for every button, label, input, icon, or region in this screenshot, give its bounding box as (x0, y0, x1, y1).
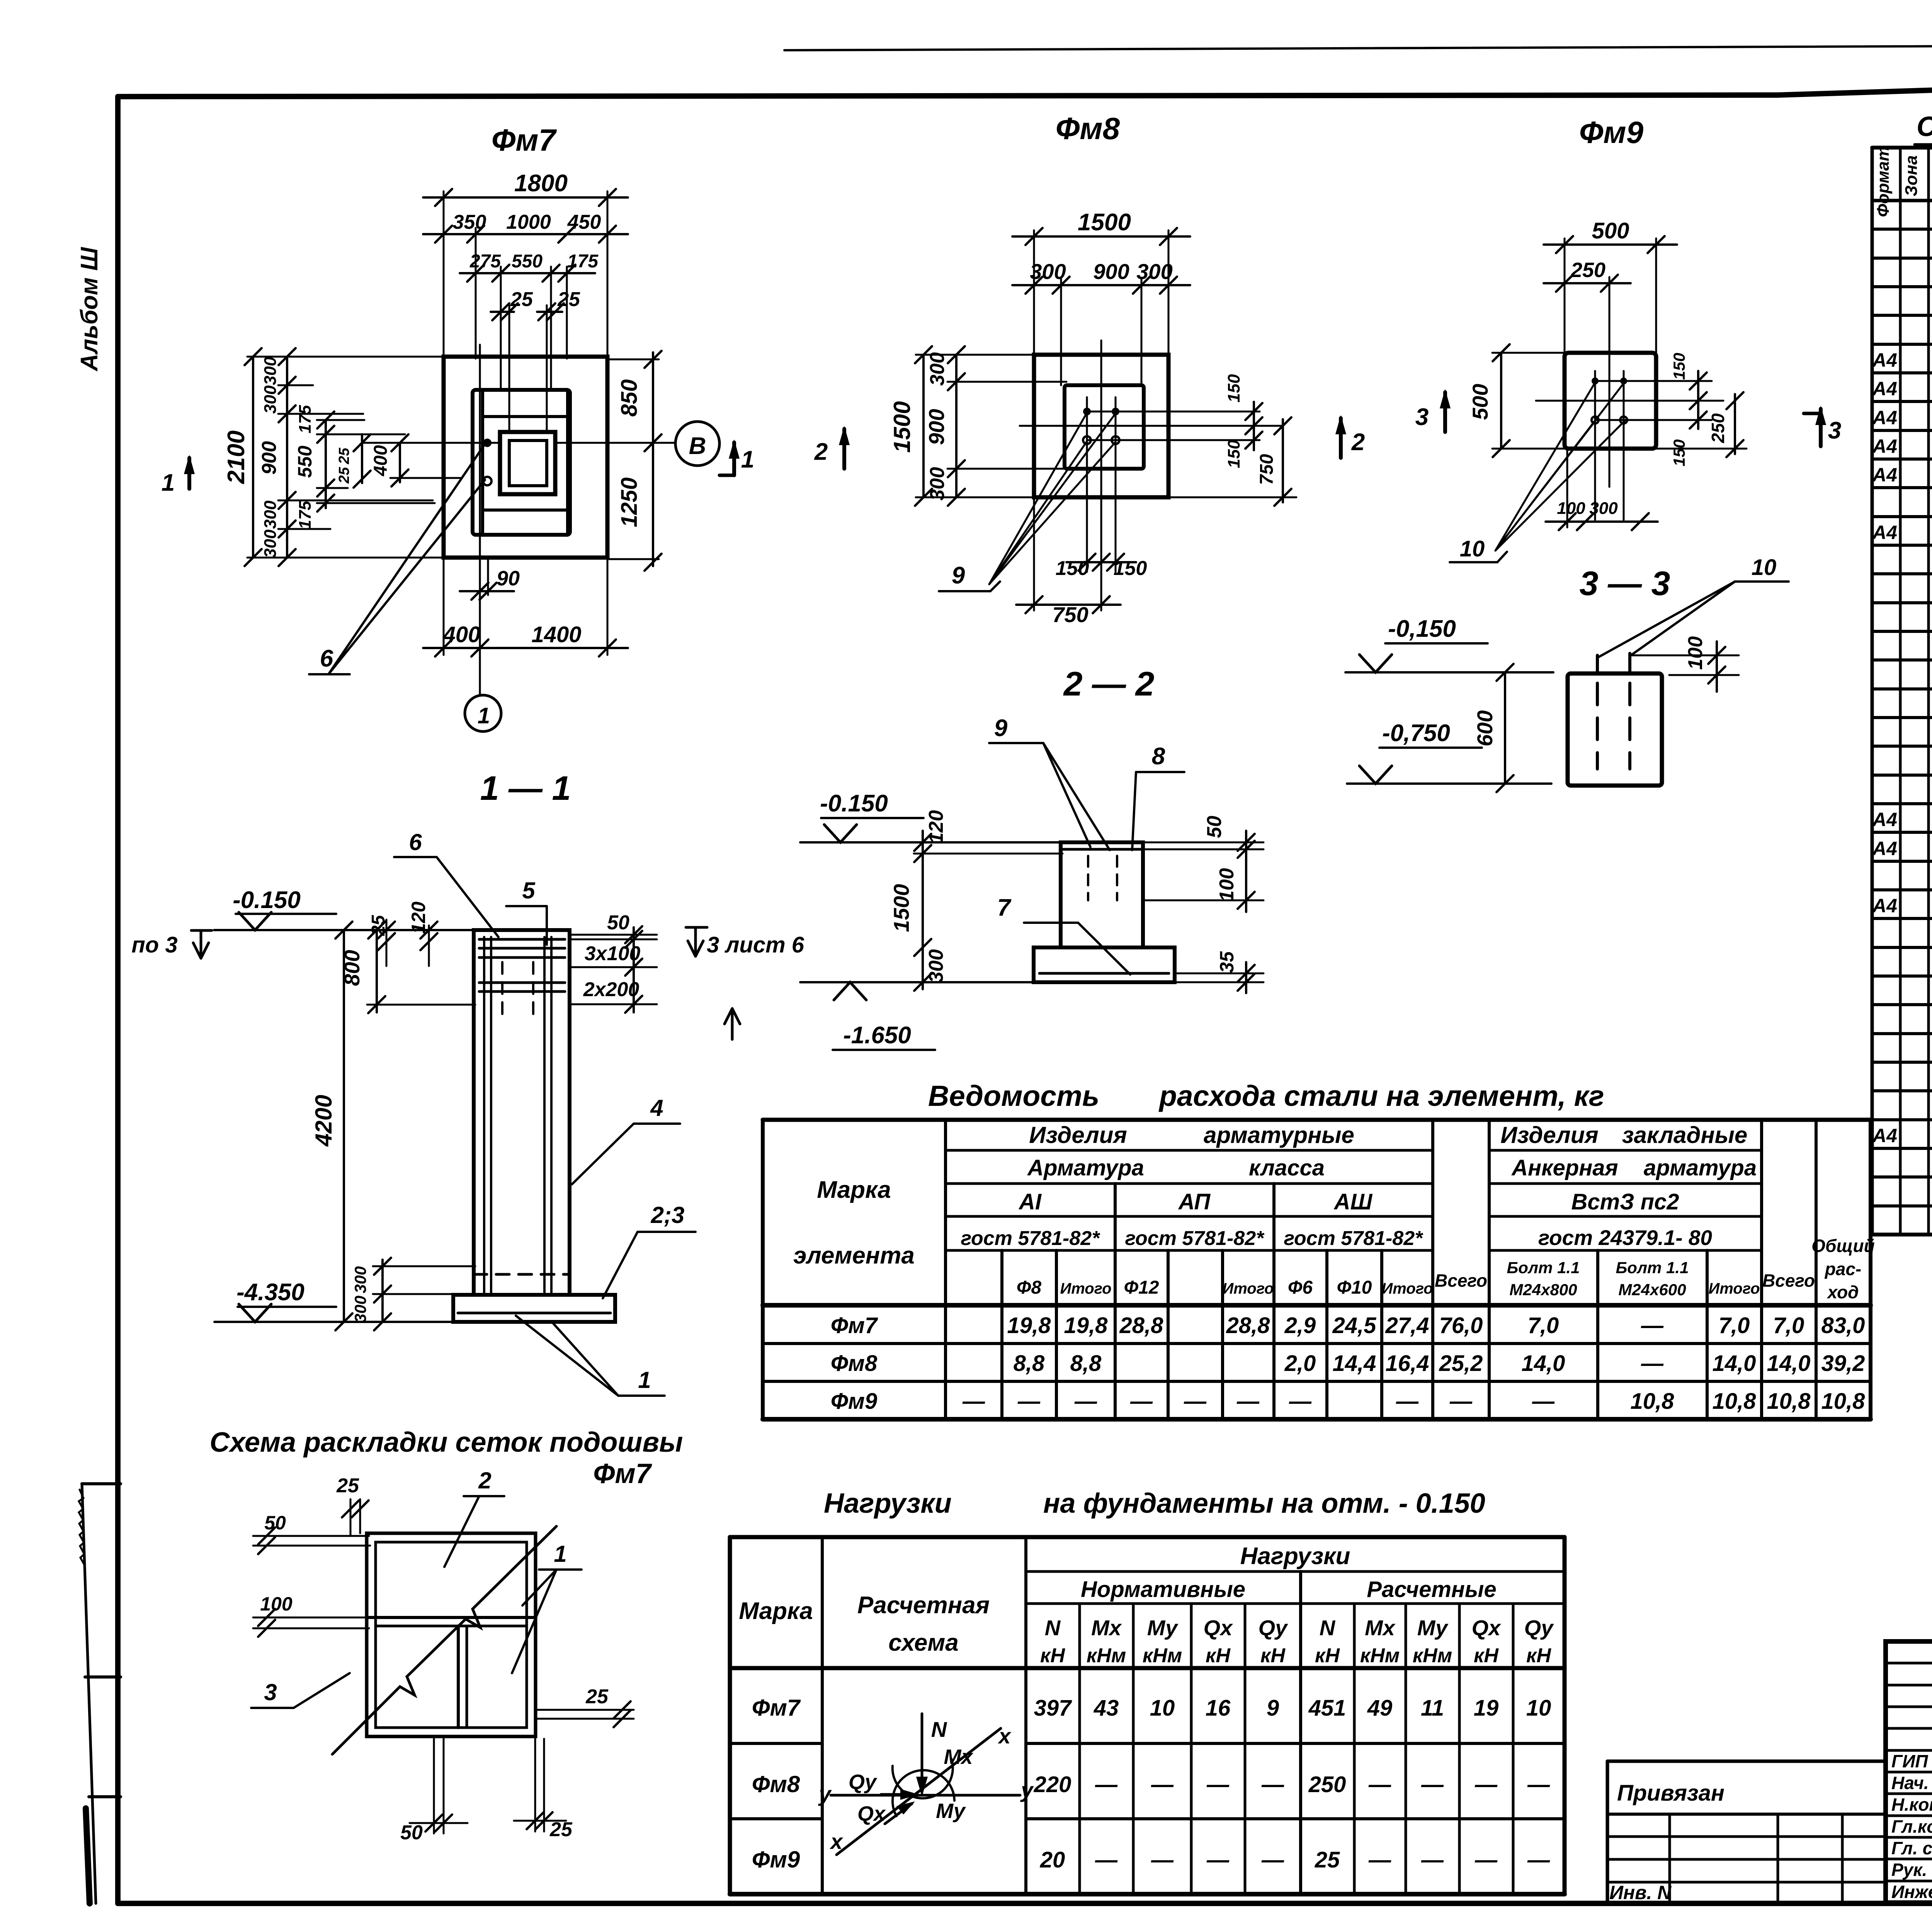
fm9 bottom dim 100 300 (1566, 450, 1568, 527)
fm8 pedestal (1065, 385, 1144, 469)
fm7 pedestal (473, 390, 570, 535)
svg-text:Ф8: Ф8 (1017, 1277, 1041, 1298)
fm7 left dim 2100 (252, 357, 254, 558)
svg-text:Ф12: Ф12 (1124, 1277, 1159, 1298)
svg-text:50: 50 (607, 912, 629, 934)
section 1-1 dim 4200 (343, 930, 345, 1322)
section 3-3 bolts dashed (1596, 683, 1599, 769)
svg-text:Фм9: Фм9 (1579, 115, 1644, 150)
svg-text:—: — (1130, 1389, 1153, 1414)
svg-text:Расчетная: Расчетная (857, 1592, 990, 1619)
svg-text:100: 100 (1684, 636, 1707, 670)
title block left signature grid (1886, 1662, 1932, 1665)
svg-text:25: 25 (585, 1685, 609, 1708)
svg-text:—: — (1095, 1847, 1118, 1872)
svg-text:Му: Му (936, 1799, 966, 1823)
svg-text:300: 300 (1030, 259, 1066, 284)
mesh leader pos3 (251, 1707, 294, 1709)
fm8 leader pos9 (989, 413, 1087, 584)
svg-text:Марка: Марка (739, 1598, 813, 1624)
svg-text:450: 450 (567, 211, 601, 233)
privyazan grid left of title block (1607, 1760, 1886, 1763)
svg-text:у: у (1020, 1778, 1034, 1802)
svg-text:М24х800: М24х800 (1509, 1281, 1577, 1299)
svg-text:300: 300 (261, 500, 280, 529)
steel table grid (763, 1118, 1871, 1122)
svg-text:2: 2 (478, 1468, 491, 1493)
fm8 left dim 300 900 300 (955, 355, 957, 497)
svg-text:500: 500 (1468, 384, 1492, 420)
svg-text:300: 300 (351, 1266, 369, 1293)
svg-text:—: — (1074, 1389, 1097, 1414)
fm8 bottom dim 150 150 (1100, 526, 1102, 611)
svg-text:9: 9 (952, 562, 965, 589)
svg-text:—: — (1532, 1389, 1555, 1414)
svg-text:Qу: Qу (1259, 1616, 1289, 1640)
svg-text:гост 24379.1- 80: гост 24379.1- 80 (1538, 1226, 1712, 1250)
svg-text:300: 300 (926, 352, 949, 386)
section 2-2 leader pos7 (1024, 922, 1078, 924)
svg-text:—: — (1368, 1772, 1391, 1797)
fm9 horizontal centerline (1536, 400, 1723, 402)
svg-text:закладные: закладные (1622, 1122, 1748, 1148)
svg-text:16: 16 (1206, 1696, 1231, 1721)
fm7 section mark 1 left (187, 458, 191, 489)
svg-text:Итого: Итого (1060, 1280, 1111, 1297)
svg-text:100: 100 (1216, 868, 1238, 902)
svg-text:150: 150 (1114, 557, 1147, 580)
section 2-2 right dim 50 100 (1143, 842, 1264, 844)
svg-text:350: 350 (453, 211, 486, 233)
fm9 slab plan (1565, 353, 1656, 449)
svg-text:300: 300 (1589, 499, 1618, 518)
svg-text:150: 150 (1225, 374, 1243, 403)
svg-text:кНм: кНм (1087, 1645, 1126, 1667)
fm7 outer slab plan (444, 357, 607, 558)
section 3-3 leader pos10 (1735, 580, 1789, 583)
svg-text:600: 600 (1473, 710, 1497, 746)
fm9 left dim 500 (1500, 353, 1502, 449)
svg-text:—: — (1206, 1772, 1230, 1797)
svg-text:Му: Му (1147, 1616, 1179, 1640)
svg-text:10: 10 (1460, 536, 1485, 561)
svg-text:А4: А4 (1872, 838, 1897, 859)
svg-text:2,0: 2,0 (1284, 1351, 1316, 1376)
section 1-1 leader pos2;3 (638, 1231, 696, 1233)
svg-text:50: 50 (400, 1821, 423, 1844)
svg-text:А4: А4 (1872, 895, 1897, 917)
fm7 dim 275 550 175 (500, 267, 502, 390)
fm8 anchor bolts (1083, 408, 1091, 415)
svg-text:Ведомость: Ведомость (928, 1080, 1099, 1112)
svg-text:Мх: Мх (944, 1745, 973, 1769)
svg-text:7,0: 7,0 (1719, 1313, 1750, 1338)
loads axis diagram (921, 1714, 923, 1792)
svg-text:10: 10 (1526, 1696, 1551, 1721)
svg-text:8,8: 8,8 (1014, 1351, 1045, 1376)
svg-text:14,0: 14,0 (1713, 1351, 1756, 1376)
svg-text:1: 1 (638, 1367, 651, 1393)
svg-text:Фм8: Фм8 (752, 1771, 800, 1797)
svg-text:—: — (1151, 1847, 1174, 1872)
mesh vertical divider lower (457, 1626, 460, 1728)
sheet frame border (118, 95, 1777, 97)
mesh dim 25 right (537, 1709, 634, 1711)
svg-text:6: 6 (320, 645, 333, 672)
svg-text:А4: А4 (1872, 464, 1897, 486)
svg-text:Гл.конст: Гл.конст (1891, 1816, 1932, 1837)
section 1-1 leader pos4 (634, 1122, 680, 1125)
svg-text:—: — (1527, 1847, 1550, 1872)
svg-text:750: 750 (1257, 454, 1277, 485)
svg-text:Мх: Мх (1365, 1616, 1396, 1640)
svg-text:—: — (1095, 1772, 1118, 1797)
svg-text:1800: 1800 (514, 170, 568, 197)
svg-text:10,8: 10,8 (1631, 1389, 1675, 1414)
section 2-2 leader pos9 (989, 742, 1043, 744)
svg-text:Анкерная: Анкерная (1511, 1155, 1618, 1180)
svg-text:кН: кН (1474, 1645, 1499, 1667)
svg-text:Общий: Общий (1811, 1236, 1874, 1256)
svg-text:—: — (962, 1389, 985, 1414)
svg-text:1: 1 (162, 469, 175, 496)
loads table grid (730, 1535, 1565, 1539)
fm8 bolt witness lines (1086, 397, 1088, 572)
svg-text:1: 1 (741, 446, 754, 473)
svg-text:7: 7 (997, 895, 1012, 921)
svg-text:АП: АП (1178, 1189, 1211, 1214)
svg-text:14,0: 14,0 (1522, 1351, 1565, 1376)
svg-text:Qх: Qх (1204, 1616, 1234, 1640)
svg-text:25: 25 (557, 288, 580, 311)
fm8 dim 300 900 300 (1060, 279, 1062, 385)
section 1-1 mark 3 list 6 (688, 927, 703, 956)
mesh leader pos1 (539, 1568, 582, 1571)
svg-text:—: — (1289, 1389, 1312, 1414)
svg-text:2: 2 (814, 439, 828, 465)
svg-text:Итого: Итого (1381, 1280, 1433, 1297)
svg-text:на фундаменты на отм. - 0.: на фундаменты на отм. - 0.150 (1043, 1488, 1485, 1519)
svg-text:Qу: Qу (849, 1770, 878, 1794)
svg-text:250: 250 (1570, 259, 1605, 282)
svg-text:Гл. спец: Гл. спец (1891, 1838, 1932, 1858)
mesh dim 25 top (350, 1499, 352, 1536)
svg-text:8,8: 8,8 (1070, 1351, 1102, 1376)
svg-text:—: — (1641, 1313, 1664, 1338)
fm9 bolt witness lines (1594, 371, 1596, 520)
svg-text:9: 9 (994, 715, 1008, 742)
fm7 section mark 1 right (719, 474, 734, 477)
svg-text:550: 550 (294, 446, 316, 478)
svg-text:Фм9: Фм9 (752, 1847, 800, 1872)
svg-text:100: 100 (1557, 499, 1585, 518)
svg-text:х: х (997, 1724, 1012, 1748)
svg-text:25: 25 (368, 915, 389, 936)
svg-text:250: 250 (1308, 1772, 1346, 1797)
svg-text:А4: А4 (1872, 809, 1897, 830)
section 1-1 level -4.350 (214, 1321, 453, 1323)
svg-text:19: 19 (1474, 1696, 1499, 1721)
fm7 dim 1800 (443, 191, 445, 359)
svg-text:х: х (829, 1829, 844, 1854)
svg-text:300: 300 (261, 385, 280, 414)
svg-text:3 — 3: 3 — 3 (1580, 564, 1670, 602)
fm8 right dim 750 (1168, 497, 1296, 498)
svg-text:Изделия: Изделия (1500, 1122, 1598, 1148)
svg-text:Всего: Всего (1435, 1270, 1487, 1291)
fm7 leader pos6 (328, 445, 484, 674)
fm8 vertical centerline (1100, 340, 1102, 526)
svg-text:Зона: Зона (1902, 155, 1921, 196)
fm7 horizontal centerline (363, 442, 498, 444)
mesh dim 25 bottom (534, 1739, 536, 1832)
spec table grid (1872, 146, 1932, 150)
fm8 section mark 2 left (842, 429, 846, 469)
section 3-3 pier (1568, 673, 1662, 786)
svg-text:25: 25 (336, 1475, 359, 1497)
svg-text:—: — (1449, 1389, 1473, 1414)
svg-text:Фм9: Фм9 (831, 1389, 877, 1414)
section 1-1 mesh pos5 top (479, 938, 565, 941)
section 1-1 rebar verticals (483, 937, 485, 1293)
section 1-1 leader pos1 (618, 1395, 665, 1397)
svg-text:Инв. N: Инв. N (1609, 1882, 1672, 1903)
svg-text:300: 300 (261, 357, 280, 385)
svg-text:28,8: 28,8 (1226, 1313, 1270, 1338)
svg-text:кН: кН (1040, 1645, 1065, 1667)
svg-text:арматурные: арматурные (1204, 1122, 1354, 1148)
svg-text:24,5: 24,5 (1332, 1313, 1377, 1338)
svg-text:—: — (1396, 1389, 1419, 1414)
fm8 bottom dim 750 (1033, 497, 1035, 611)
section 3-3 bolt stubs (1596, 655, 1599, 673)
svg-text:43: 43 (1094, 1696, 1119, 1721)
svg-text:900: 900 (924, 409, 949, 445)
svg-text:28,8: 28,8 (1119, 1313, 1164, 1338)
svg-text:35: 35 (1216, 951, 1238, 973)
svg-text:850: 850 (617, 379, 642, 417)
svg-text:Итого: Итого (1708, 1280, 1760, 1297)
svg-text:—: — (1151, 1772, 1174, 1797)
mesh horizontal divider (367, 1616, 536, 1619)
svg-text:N: N (1045, 1616, 1061, 1640)
svg-text:ВстЗ пс2: ВстЗ пс2 (1571, 1189, 1679, 1214)
svg-text:В: В (689, 433, 706, 459)
svg-text:300: 300 (925, 949, 947, 983)
svg-text:—: — (1206, 1847, 1230, 1872)
sheet top scan edge line (784, 43, 1932, 50)
svg-text:7,0: 7,0 (1528, 1313, 1559, 1338)
svg-text:Рук. гр.: Рук. гр. (1891, 1860, 1932, 1880)
svg-text:—: — (1421, 1772, 1444, 1797)
fm9 anchor bolts (1592, 378, 1599, 384)
svg-text:Фм7: Фм7 (831, 1313, 878, 1338)
fm8 right dim 150 150 (1253, 402, 1255, 450)
section 2-2 dim 120 1500 300 (922, 831, 924, 989)
svg-text:1250: 1250 (617, 477, 642, 527)
section 3-3 dim 100 (1630, 655, 1739, 656)
mesh dim 50 bottom (433, 1739, 435, 1833)
section 2-2 right dim 35 (1175, 973, 1264, 975)
svg-text:Qх: Qх (857, 1802, 886, 1825)
svg-text:Расчетные: Расчетные (1367, 1577, 1496, 1602)
svg-text:3: 3 (1828, 417, 1841, 444)
section 3-3 level -0.150 line (1345, 671, 1553, 673)
fm8 horizontal centerline (1020, 425, 1282, 427)
svg-text:Фм8: Фм8 (831, 1351, 878, 1376)
fm7 dim chain 175 550 175 (325, 420, 327, 508)
svg-text:10,8: 10,8 (1713, 1389, 1757, 1414)
section 1-1 footing (453, 1295, 615, 1322)
svg-text:175: 175 (296, 405, 315, 434)
svg-text:-0,750: -0,750 (1382, 720, 1450, 747)
svg-text:Всего: Всего (1762, 1270, 1815, 1291)
svg-text:1500: 1500 (889, 401, 915, 452)
svg-text:расхода стали на элемент, к: расхода стали на элемент, кг (1158, 1080, 1604, 1112)
svg-text:схема: схема (888, 1629, 958, 1656)
svg-text:275: 275 (469, 251, 501, 272)
svg-text:кН: кН (1206, 1645, 1231, 1667)
svg-text:рас-: рас- (1824, 1259, 1862, 1279)
svg-text:150: 150 (1670, 439, 1688, 466)
svg-text:2100: 2100 (223, 430, 250, 484)
mesh dim 50 left (253, 1535, 369, 1537)
section 1-1 dim 800 (376, 930, 378, 1012)
svg-text:А4: А4 (1872, 349, 1897, 371)
svg-text:14,0: 14,0 (1767, 1351, 1811, 1376)
svg-text:11: 11 (1421, 1696, 1444, 1721)
section 1-1 level line -0.150 (214, 929, 474, 931)
svg-text:76,0: 76,0 (1439, 1313, 1483, 1338)
fm7 column axis circle 1 (465, 695, 501, 731)
svg-text:25: 25 (336, 467, 352, 484)
section 1-1 column stem (474, 930, 570, 1295)
svg-text:Qу: Qу (1524, 1616, 1554, 1640)
svg-text:451: 451 (1308, 1696, 1346, 1721)
svg-text:3х100: 3х100 (585, 942, 641, 965)
svg-text:3: 3 (1415, 404, 1429, 430)
section 2-2 column stem (1061, 842, 1143, 947)
mesh break diagonal (332, 1526, 556, 1754)
svg-text:10: 10 (1150, 1696, 1175, 1721)
svg-text:Фм8: Фм8 (1056, 111, 1120, 146)
svg-text:25: 25 (336, 447, 352, 464)
svg-text:Привязан: Привязан (1617, 1781, 1725, 1806)
section 1-1 leader pos5 (506, 905, 547, 907)
svg-text:90: 90 (497, 567, 520, 590)
svg-text:—: — (1236, 1389, 1260, 1414)
fm8 dim 1500 (1033, 230, 1035, 356)
svg-text:элемента: элемента (793, 1242, 915, 1269)
svg-text:150: 150 (1670, 353, 1688, 380)
svg-text:Марка: Марка (817, 1177, 891, 1203)
svg-text:кН: кН (1260, 1645, 1286, 1667)
svg-text:-0.150: -0.150 (233, 887, 301, 913)
svg-text:М24х600: М24х600 (1618, 1281, 1686, 1299)
svg-text:Ф6: Ф6 (1288, 1277, 1313, 1298)
fm7 anchor bolt bottom (483, 477, 492, 485)
svg-text:49: 49 (1367, 1696, 1393, 1721)
svg-text:120: 120 (925, 810, 947, 844)
svg-text:19,8: 19,8 (1064, 1313, 1108, 1338)
fm9 dim 250 (1609, 277, 1611, 328)
svg-text:Му: Му (1417, 1616, 1449, 1640)
svg-text:А4: А4 (1872, 378, 1897, 400)
svg-text:Фм7: Фм7 (593, 1458, 652, 1489)
section 2-2 footing (1034, 947, 1175, 982)
svg-text:ГИП: ГИП (1891, 1751, 1928, 1771)
svg-text:Фм7: Фм7 (492, 123, 557, 157)
svg-text:Ф10: Ф10 (1337, 1277, 1372, 1298)
svg-text:2 — 2: 2 — 2 (1063, 665, 1155, 703)
svg-text:—: — (1184, 1389, 1207, 1414)
fm9 vertical centerline (1609, 328, 1611, 487)
svg-text:кНм: кНм (1360, 1645, 1400, 1667)
svg-text:Мх: Мх (1091, 1616, 1122, 1640)
fm7 anchor plate squares (500, 432, 555, 494)
svg-text:397: 397 (1034, 1696, 1073, 1721)
section 1-1 dim 300 300 (381, 1260, 384, 1322)
svg-text:16,4: 16,4 (1386, 1351, 1429, 1376)
svg-text:-0,150: -0,150 (1388, 616, 1456, 642)
fm7 axis circle B (675, 422, 719, 466)
svg-text:2: 2 (1351, 429, 1365, 456)
svg-text:—: — (1261, 1847, 1284, 1872)
svg-text:Инженер: Инженер (1891, 1882, 1932, 1902)
svg-text:2,9: 2,9 (1284, 1313, 1316, 1338)
svg-text:кН: кН (1315, 1645, 1340, 1667)
section 2-2 level line -0.150 (800, 841, 1061, 844)
fm8 section mark 2 right (1339, 418, 1343, 458)
fm9 section mark 3 left (1443, 392, 1447, 432)
svg-text:—: — (1641, 1351, 1664, 1376)
svg-text:10,8: 10,8 (1821, 1389, 1866, 1414)
section 3-3 level -0.750 line (1347, 782, 1551, 785)
svg-text:100: 100 (260, 1593, 293, 1615)
svg-text:50: 50 (1203, 816, 1226, 838)
svg-text:6: 6 (409, 829, 422, 855)
svg-text:Схема раскладки сеток подош: Схема раскладки сеток подошвы (210, 1427, 683, 1458)
svg-text:50: 50 (264, 1512, 286, 1534)
svg-text:25: 25 (1315, 1847, 1340, 1872)
svg-text:250: 250 (1708, 413, 1728, 443)
section 1-1 anchor bolts dashed (501, 962, 503, 1020)
svg-text:9: 9 (1267, 1696, 1279, 1721)
svg-text:1: 1 (554, 1541, 566, 1567)
title block outer (1886, 1641, 1932, 1903)
svg-text:N: N (931, 1717, 947, 1742)
svg-text:у: у (818, 1782, 832, 1806)
fm9 dim 500 (1564, 238, 1566, 354)
svg-text:25: 25 (510, 288, 533, 311)
svg-text:Нагрузки: Нагрузки (1240, 1543, 1350, 1570)
svg-text:5: 5 (522, 878, 536, 903)
svg-text:Арматура: Арматура (1027, 1155, 1144, 1180)
svg-text:Нормативные: Нормативные (1081, 1577, 1245, 1602)
fm7 vertical centerline (479, 345, 481, 694)
svg-text:гост 5781-82*: гост 5781-82* (1125, 1227, 1265, 1250)
section 1-1 leader pos6 (394, 856, 437, 858)
svg-text:А4: А4 (1872, 435, 1897, 457)
svg-text:500: 500 (1592, 218, 1629, 243)
svg-text:по 3: по 3 (131, 932, 177, 957)
svg-text:АI: АI (1018, 1189, 1042, 1214)
svg-text:арматура: арматура (1644, 1155, 1757, 1180)
fm7 dim 350 1000 450 (475, 228, 477, 359)
svg-text:27,4: 27,4 (1385, 1313, 1429, 1338)
svg-text:Болт 1.1: Болт 1.1 (1616, 1259, 1689, 1277)
fm8 left dim 1500 (922, 355, 925, 497)
